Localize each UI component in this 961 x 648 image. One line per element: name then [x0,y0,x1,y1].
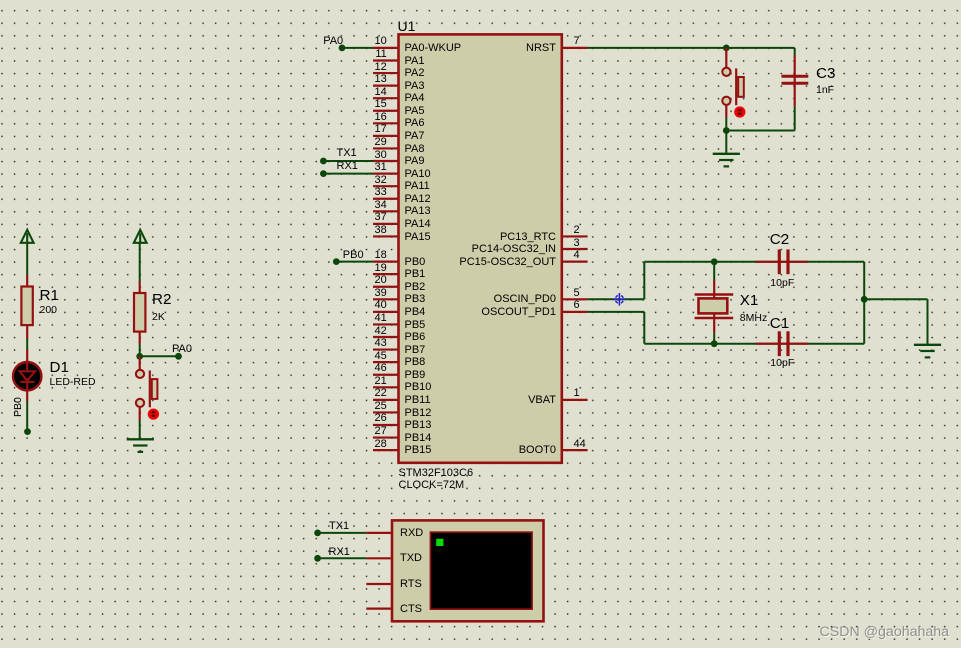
label PB0 [13,397,25,417]
label 6 [574,299,580,311]
pin 6 OSCOUT_PD1 (right) [562,311,588,313]
node TX1 wire to RXD [314,530,366,537]
terminal cursor [436,539,443,546]
label 28 [375,438,387,450]
label 1nF [816,85,834,97]
pin 12 PA2 (left) [373,72,399,74]
pin 20 PB2 (left) [373,286,399,288]
pin 26 PB13 (left) [373,424,399,426]
pin 30 PA9 (left) [373,160,399,162]
node RX1 stub at pin 31 [320,170,373,177]
label STM32F103C6 [399,467,474,479]
label 22 [375,387,387,399]
label CLOCK=72M [399,479,465,491]
label PA5 [405,105,425,117]
label 12 [375,61,387,73]
pin 17 PA7 (left) [373,135,399,137]
wire D1 to terminal dot [26,402,28,431]
pin 40 PB4 (left) [373,311,399,313]
terminal screen [430,532,532,609]
label PB0 [343,249,364,261]
label 38 [375,224,387,236]
label PB5 [405,319,426,331]
label TX1 [329,520,349,532]
pin 21 PB10 (left) [373,386,399,388]
wire OSCIN_PD0 (pin5) [588,298,645,300]
label 41 [375,312,387,324]
label 43 [375,337,387,349]
label 10pF [770,358,794,370]
label PB11 [405,394,431,406]
label PA12 [405,193,431,205]
X1 labels [0,0,1,1]
label OSCOUT_PD1 [481,306,556,318]
pin 45 PB8 (left) [373,361,399,363]
pin 15 PA5 (left) [373,110,399,112]
wire NRST to C3 [588,47,795,49]
label 11 [375,48,386,60]
pin 13 PA3 (left) [373,85,399,87]
pin 38 PA15 (left) [373,235,399,237]
net label PB0 (vertical) [0,0,1,1]
label PB7 [405,344,426,356]
push button (reset) [722,68,744,117]
wire junction down to reset button [725,48,727,68]
label PB3 [405,293,426,305]
wire button to ground [139,407,141,438]
pin 46 PB9 (left) [373,374,399,376]
label 2K [152,312,165,324]
pin 33 PA12 (left) [373,198,399,200]
label RX1 [329,546,350,558]
text labels layer [0,0,961,1]
label 5 [574,287,580,299]
label PB14 [405,432,432,444]
net label PA0 [0,0,1,1]
junction node (R2/button/PA0) [136,353,143,360]
label 32 [375,174,387,186]
pin 28 PB15 (left) [373,449,399,451]
terminal pin CTS [366,607,392,609]
pin 14 PA4 (left) [373,97,399,99]
label PB15 [405,444,432,456]
label U1 [398,19,416,35]
label PB12 [405,407,432,419]
pin 2 PC13_RTC (right) [562,235,588,237]
label PC14-OSC32_IN [472,243,556,255]
wire junction to PA0 terminal [140,355,179,357]
capacitor C1 [756,331,809,356]
label 15 [375,98,387,110]
resistor R1 [21,275,32,339]
push button (PA0) [136,370,158,419]
R1 labels [0,0,1,1]
origin marker (blue crosshair) [613,293,626,306]
power symbol (R2 top) [134,230,147,243]
label PA0 [323,35,343,47]
label 29 [375,136,387,148]
label R1 [40,288,59,305]
terminal pin RXD [366,532,392,534]
node TX1 stub at pin 30 [320,158,373,165]
LED D1 [13,350,41,402]
label 34 [375,199,387,211]
pin 4 PC15-OSC32_OUT (right) [562,260,588,262]
label 40 [375,299,387,311]
label PA15 [405,231,431,243]
watermark [0,0,1,1]
node PB0 stub at pin 18 [333,258,373,265]
pin 18 PB0 (left) [373,260,399,262]
label PB8 [405,356,426,368]
junction node on NRST wire [723,45,730,52]
label 21 [375,375,387,387]
wire junction to ground [725,131,727,153]
label 37 [375,211,387,223]
label PB9 [405,369,426,381]
wire bottom rail [644,343,864,345]
D1 labels [0,0,1,1]
ground (crystal) [914,345,941,358]
label PA13 [405,205,431,217]
label PA3 [405,80,425,92]
label 14 [375,86,387,98]
label 200 [40,305,58,317]
pin 16 PA6 (left) [373,122,399,124]
label 42 [375,325,387,337]
pin 11 PA1 (left) [373,59,399,61]
ground (reset) [713,154,740,167]
pin 34 PA13 (left) [373,210,399,212]
label C2 [770,232,789,249]
label PA2 [405,67,425,79]
C2 labels [0,0,1,1]
label TXD [400,552,422,564]
pin 37 PA14 (left) [373,223,399,225]
label 10 [375,35,387,47]
capacitor C2 [756,249,809,274]
pin 44 BOOT0 (right) [562,449,588,451]
label 4 [574,249,580,261]
pin 27 PB14 (left) [373,436,399,438]
pin 3 PC14-OSC32_IN (right) [562,248,588,250]
label C3 [816,66,835,83]
pin 19 PB1 (left) [373,273,399,275]
label PB10 [405,381,432,393]
label CSDN @gaohahaha [820,625,950,641]
wire top rail [644,261,864,263]
wire power to R2 [139,243,141,282]
label PA14 [405,218,431,230]
label PA4 [405,92,425,104]
label PC13_RTC [500,231,556,243]
label PA0 [172,343,192,355]
label RX1 [337,160,358,172]
junction node bottom rail / crystal [711,340,718,347]
label 44 [574,438,586,450]
pin 43 PB7 (left) [373,348,399,350]
label X1 [740,293,759,310]
junction node right riser [861,296,868,303]
label CTS [400,603,422,615]
label R2 [152,292,171,309]
pin 1 VBAT (right) [562,399,588,401]
C3 labels [0,0,1,1]
label 39 [375,287,387,299]
label 13 [375,73,387,85]
label 25 [375,400,387,412]
wire junction to crystal ground [864,299,927,344]
label PB0 [405,256,426,268]
pin 29 PA8 (left) [373,147,399,149]
label RXD [400,527,423,539]
label OSCIN_PD0 [494,293,556,305]
C1 labels [0,0,1,1]
wire pin5 riser to top rail [643,262,645,300]
label PB6 [405,331,426,343]
pin 7 NRST (right) [562,47,588,49]
virtual terminal body [392,520,544,621]
label 46 [375,362,387,374]
label PA0-WKUP [405,42,462,54]
pin 5 OSCIN_PD0 (right) [562,298,588,300]
pin 10 PA0-WKUP (left) [373,47,399,49]
label 18 [375,249,387,261]
label 30 [375,149,387,161]
label PB2 [405,281,426,293]
terminal pin RTS [366,583,392,585]
wire junction to C3 bottom [726,106,794,130]
junction node top rail / crystal [711,258,718,265]
resistor R2 [134,282,145,345]
label TX1 [337,147,357,159]
label PA1 [405,55,425,67]
label 19 [375,262,387,274]
label BOOT0 [519,444,556,456]
label PA6 [405,117,425,129]
pin 41 PB5 (left) [373,323,399,325]
pin 31 PA10 (left) [373,173,399,175]
label 3 [574,237,580,249]
wire R1 to D1 [26,339,28,350]
label PA8 [405,143,425,155]
wire OSCOUT_PD1 (pin6) [588,312,645,344]
power symbol (R1 top) [21,230,34,243]
label 2 [574,224,580,236]
label 10pF [770,278,794,290]
pin 39 PB3 (left) [373,298,399,300]
pin 32 PA11 (left) [373,185,399,187]
label 45 [375,350,387,362]
R2 labels [0,0,1,1]
crystal X1 [695,262,734,344]
label PB13 [405,419,432,431]
wire power to R1 [26,243,28,275]
node RX1 wire to TXD [314,555,366,562]
node PA0 stub at pin 10 [339,45,373,52]
wire junction to button [139,356,141,370]
chip U1 STM32F103C6 body [399,34,562,462]
label 26 [375,412,387,424]
wire reset button to lower junction [725,105,727,130]
wire right riser [863,262,865,344]
label LED-RED [50,377,96,389]
label RTS [400,578,422,590]
label 33 [375,186,387,198]
label 27 [375,425,387,437]
label 20 [375,274,387,286]
label PA10 [405,168,431,180]
label VBAT [528,394,556,406]
pin 25 PB12 (left) [373,411,399,413]
label 31 [375,161,387,173]
label 16 [375,111,387,123]
label NRST [526,42,556,54]
label C1 [770,316,789,333]
ground (R2 button) [127,439,154,452]
capacitor C3 [782,48,809,107]
label PB4 [405,306,426,318]
label CSDN @gaohahaha [821,626,951,642]
junction node button/ground/C3 [723,127,730,134]
terminal pin TXD [366,557,392,559]
label PA9 [405,155,425,167]
pin 42 PB6 (left) [373,336,399,338]
label PA7 [405,130,425,142]
label D1 [50,360,69,377]
label PC15-OSC32_OUT [459,256,556,268]
label PB1 [405,268,426,280]
label 8MHz [740,313,767,325]
label 7 [574,35,580,47]
label PA11 [405,180,430,192]
label 1 [574,387,580,399]
node PB0 terminal dot [24,428,31,435]
pin 22 PB11 (left) [373,399,399,401]
wire R2 to junction [139,344,141,356]
node PA0 terminal dot [175,353,182,360]
chip U1 reference label [0,0,1,1]
label 17 [375,123,387,135]
chip U1 part/clock labels [0,0,1,1]
